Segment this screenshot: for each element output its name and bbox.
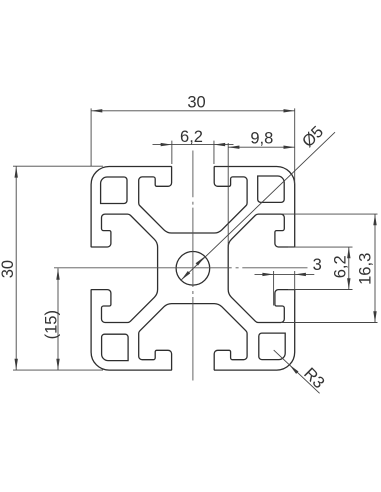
svg-text:(15): (15) bbox=[42, 310, 60, 339]
svg-text:30: 30 bbox=[187, 94, 205, 112]
dimension 30 (left height) bbox=[13, 166, 103, 370]
dimension 3 (slot neck depth) bbox=[255, 271, 315, 306]
svg-text:3: 3 bbox=[313, 256, 322, 274]
dimension 30 (top width) bbox=[91, 108, 295, 184]
svg-text:6,2: 6,2 bbox=[331, 255, 349, 278]
dimension 9,8 (cavity depth) bbox=[228, 143, 295, 246]
horizontal centerline bbox=[54, 267, 308, 269]
leader and dimension O5 (centre bore) bbox=[181, 132, 335, 280]
vertical centerline bbox=[192, 151, 194, 381]
dimension 16,3 (cavity width) bbox=[281, 214, 378, 322]
svg-text:16,3: 16,3 bbox=[356, 253, 374, 285]
svg-text:6,2: 6,2 bbox=[180, 128, 203, 146]
dimension 6,2 (right slot opening) bbox=[288, 247, 353, 289]
centre bore O5 bbox=[176, 251, 210, 285]
svg-text:30: 30 bbox=[0, 260, 17, 278]
profile outline: 4 rotated quadrants bbox=[214, 167, 295, 323]
dimension 6,2 (top slot opening) bbox=[153, 141, 234, 164]
dimension (15) (half height, reference) bbox=[57, 268, 59, 370]
leader and dimension R3 (corner radius) bbox=[274, 350, 320, 393]
svg-text:9,8: 9,8 bbox=[250, 130, 273, 148]
